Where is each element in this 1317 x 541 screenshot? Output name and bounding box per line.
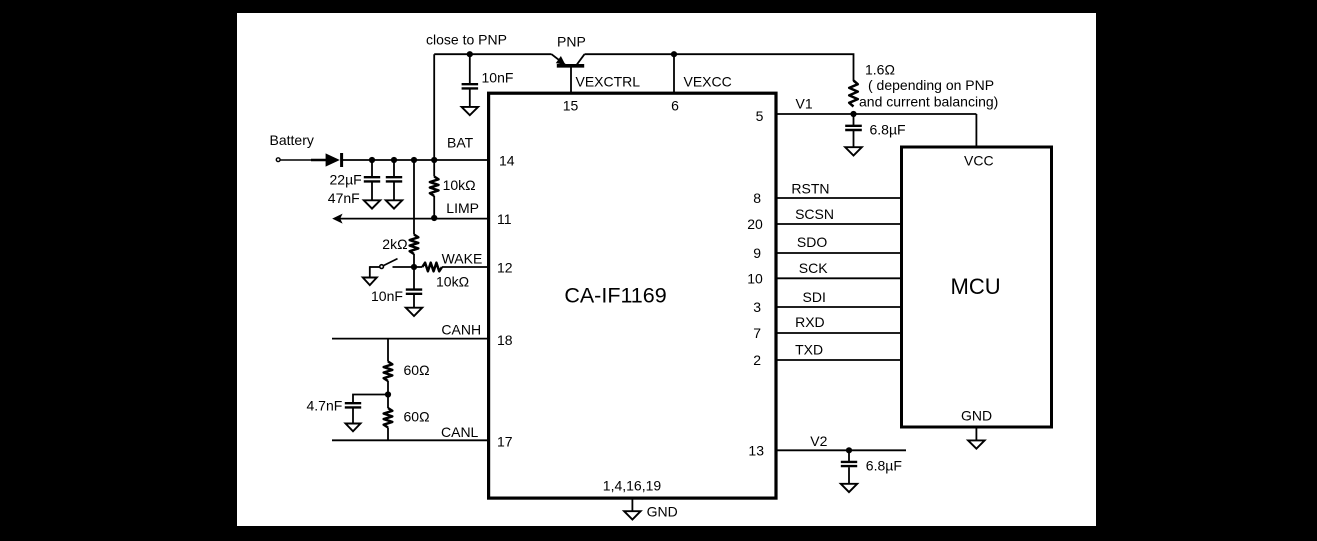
svg-text:20: 20	[747, 216, 763, 232]
svg-text:V1: V1	[796, 96, 813, 112]
junction top rail / VEXCC	[671, 51, 677, 57]
switch S1	[370, 259, 398, 269]
junction WAKE	[411, 264, 417, 270]
svg-text:and current balancing): and current balancing)	[859, 94, 998, 110]
svg-text:TXD: TXD	[795, 342, 823, 358]
wire to 47nF	[393, 160, 395, 178]
wire BAT to 10k	[433, 160, 435, 177]
wire 10nF branch down	[469, 54, 471, 83]
svg-text:1.6Ω: 1.6Ω	[865, 62, 895, 78]
wire to 22uF	[371, 160, 373, 178]
svg-text:VCC: VCC	[964, 153, 994, 169]
wire 6.8uF to ground	[853, 131, 855, 147]
wire 4.7nF to gnd	[352, 409, 354, 424]
svg-text:RSTN: RSTN	[791, 180, 829, 196]
capacitor 10nF (WAKE)	[406, 288, 422, 290]
junction top rail / 10nF branch	[467, 51, 473, 57]
MCU U2 body	[902, 147, 1052, 427]
wire RXD net	[776, 332, 901, 334]
wire IC gnd stem	[631, 500, 633, 512]
wire PNP base to pin 15	[570, 66, 572, 93]
svg-text:MCU: MCU	[951, 274, 1001, 299]
node Battery terminal	[276, 158, 280, 162]
wire SCK net	[776, 277, 901, 279]
ground symbol below 4.7nF	[346, 424, 361, 432]
capacitor 10nF (close to PNP)	[462, 83, 479, 85]
svg-text:CA-IF1169: CA-IF1169	[564, 283, 666, 307]
svg-text:47nF: 47nF	[328, 190, 360, 206]
svg-text:2: 2	[753, 352, 761, 368]
ground symbol below 10nF	[462, 107, 479, 115]
svg-text:CANH: CANH	[441, 322, 481, 338]
svg-text:Battery: Battery	[270, 132, 314, 148]
wire WAKE junction to 10k	[414, 266, 422, 268]
transistor Q1 PNP	[552, 54, 585, 66]
svg-text:10kΩ: 10kΩ	[436, 273, 469, 289]
resistor 60ohm lower	[384, 408, 393, 428]
wire V1 junction down to cap	[853, 114, 855, 126]
capacitor 6.8uF (V2)	[841, 461, 857, 463]
wire CANL net	[332, 439, 488, 441]
wire top rail right segment (PNP collector to 1.6ohm)	[585, 54, 854, 81]
wire SDI net	[776, 306, 901, 308]
wire V2 net	[776, 449, 906, 451]
svg-text:12: 12	[497, 259, 513, 275]
svg-text:9: 9	[753, 245, 761, 261]
ground symbol below 6.8uF V1	[845, 147, 862, 155]
svg-text:( depending on PNP: ( depending on PNP	[868, 77, 994, 93]
junction BAT/47nF	[391, 157, 397, 163]
schematic white panel	[237, 13, 1096, 526]
ground symbol below WAKE 10nF	[406, 308, 422, 316]
svg-text:SDI: SDI	[803, 289, 826, 305]
svg-text:SCK: SCK	[799, 260, 828, 276]
wire down into MCU VCC	[975, 114, 977, 147]
resistor 10k (BAT-LIMP)	[430, 177, 439, 197]
svg-text:17: 17	[497, 434, 513, 450]
junction BAT/2k branch	[411, 157, 417, 163]
capacitor 22uF	[364, 176, 380, 178]
wire CANH to 60ohm	[387, 339, 389, 362]
wire split to 4.7nF	[353, 395, 388, 404]
junction V2 / 6.8uF	[846, 447, 852, 453]
svg-text:VEXCTRL: VEXCTRL	[576, 74, 641, 90]
svg-text:RXD: RXD	[795, 314, 825, 330]
svg-text:10kΩ: 10kΩ	[443, 177, 476, 193]
MCU ground symbol	[968, 440, 985, 448]
svg-text:60Ω: 60Ω	[404, 408, 430, 424]
svg-text:BAT: BAT	[447, 134, 474, 150]
wire top rail left segment (close-to-PNP net)	[434, 53, 551, 55]
capacitor 47nF	[386, 176, 402, 178]
resistor 10k (WAKE series)	[422, 263, 442, 272]
svg-text:6.8µF: 6.8µF	[866, 458, 902, 474]
svg-text:GND: GND	[961, 408, 992, 424]
junction LIMP/10k	[431, 215, 437, 221]
diode D1	[326, 153, 342, 167]
wire TXD net	[776, 359, 901, 361]
wire VEXCC to pin 6	[673, 54, 675, 93]
svg-text:18: 18	[497, 332, 513, 348]
wire BAT net to pin 14	[342, 159, 488, 161]
svg-text:10nF: 10nF	[371, 288, 403, 304]
svg-text:5: 5	[756, 108, 764, 124]
capacitor 4.7nF	[345, 402, 361, 404]
svg-text:3: 3	[753, 299, 761, 315]
svg-text:10nF: 10nF	[482, 70, 514, 86]
svg-text:4.7nF: 4.7nF	[307, 397, 343, 413]
svg-text:60Ω: 60Ω	[404, 362, 430, 378]
svg-text:7: 7	[753, 325, 761, 341]
wire 10nF to gnd	[413, 295, 415, 308]
ground symbol below 47nF	[386, 200, 402, 208]
svg-text:13: 13	[748, 442, 764, 458]
svg-text:2kΩ: 2kΩ	[382, 236, 407, 252]
wire 10k to LIMP	[433, 196, 435, 218]
wire WAKE junction down to 10nF	[413, 267, 415, 290]
svg-text:1,4,16,19: 1,4,16,19	[603, 478, 662, 494]
wire SCSN net	[776, 223, 901, 225]
svg-text:6.8µF: 6.8µF	[870, 121, 906, 137]
wire RSTN net	[776, 197, 901, 199]
svg-text:11: 11	[497, 211, 512, 227]
ground symbol below 22uF	[364, 200, 380, 208]
wire 47nF to gnd	[393, 183, 395, 201]
junction V1 / 6.8uF	[850, 111, 856, 117]
svg-text:V2: V2	[810, 433, 827, 449]
op IC U1 CA-IF1169 body	[489, 93, 776, 498]
MCU ground wire	[975, 429, 977, 441]
arrow LIMP output	[332, 214, 342, 224]
svg-text:8: 8	[753, 190, 761, 206]
svg-text:SDO: SDO	[797, 234, 827, 250]
svg-text:15: 15	[563, 97, 579, 113]
svg-text:10: 10	[747, 270, 763, 286]
wire cap to gnd	[848, 467, 850, 484]
wire 60ohm lower to CANL	[387, 428, 389, 441]
wire 60ohm to split junction	[387, 381, 389, 408]
wire V2 junction to cap	[848, 450, 850, 461]
junction BAT/22uF	[369, 157, 375, 163]
ground symbol below switch	[363, 278, 377, 286]
wire vertical from top rail down to BAT node	[433, 54, 435, 160]
wire 22uF to gnd	[371, 183, 373, 201]
wire 2k branch from BAT	[413, 160, 415, 235]
wire CANH net	[332, 338, 488, 340]
resistor 2k	[410, 235, 419, 255]
wire 10k to pin 12	[442, 266, 488, 268]
junction BAT/10k-top-rail branch	[431, 157, 437, 163]
svg-text:LIMP: LIMP	[446, 200, 479, 216]
wire LIMP net	[340, 218, 488, 220]
ground symbol IC	[624, 511, 641, 519]
svg-text:CANL: CANL	[441, 424, 479, 440]
svg-text:6: 6	[671, 97, 679, 113]
junction split termination	[385, 391, 391, 397]
svg-text:14: 14	[499, 153, 515, 169]
wire 2k to WAKE junction	[413, 254, 415, 267]
ground symbol below 6.8uF V2	[841, 484, 857, 492]
svg-text:VEXCC: VEXCC	[684, 74, 732, 90]
wire switch gnd drop	[369, 266, 371, 277]
capacitor 6.8uF (V1)	[845, 125, 862, 127]
wire V1 net: pin5 to MCU VCC column	[776, 113, 976, 115]
wire battery to diode	[280, 159, 311, 161]
svg-text:WAKE: WAKE	[442, 250, 483, 266]
resistor 1.6 ohm	[849, 81, 858, 107]
svg-text:SCSN: SCSN	[795, 206, 834, 222]
svg-text:PNP: PNP	[557, 34, 586, 50]
wire SDO net	[776, 252, 901, 254]
wire switch to WAKE junction	[393, 266, 415, 268]
resistor 60ohm upper	[384, 362, 393, 382]
svg-text:GND: GND	[647, 504, 678, 520]
svg-text:22µF: 22µF	[330, 171, 362, 187]
svg-text:close to PNP: close to PNP	[426, 31, 507, 47]
wire 10nF to ground	[469, 90, 471, 108]
